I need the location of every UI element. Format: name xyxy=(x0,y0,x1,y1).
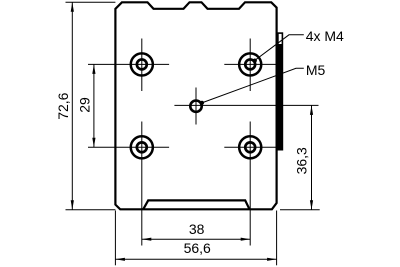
svg-text:72,6: 72,6 xyxy=(55,92,71,119)
side rail solid lower part xyxy=(277,44,283,150)
centerline col left top hole xyxy=(141,39,143,92)
hole center M5 xyxy=(190,101,201,112)
hole top-left M4 xyxy=(131,53,153,75)
center hole horizontal centerline + 36,3 extension xyxy=(174,104,318,106)
svg-text:M5: M5 xyxy=(306,62,326,78)
arrows 72,6 xyxy=(71,2,313,261)
svg-text:56,6: 56,6 xyxy=(184,240,211,256)
svg-text:38: 38 xyxy=(189,221,205,237)
bottom step xyxy=(143,200,249,209)
dimension line 72,6 xyxy=(71,2,73,209)
extension line top-left (72,6) xyxy=(66,1,116,3)
centerline row1 left (29 extension) xyxy=(88,63,169,65)
hole bottom-right M4 xyxy=(239,136,261,158)
hole bottom-left M4 xyxy=(131,136,153,158)
arrows 38 xyxy=(142,238,152,241)
extension line bottom-right (36,3) xyxy=(280,209,320,211)
side rail outline xyxy=(278,33,283,150)
centerline col left bottom hole + 38 extension xyxy=(141,122,143,246)
dimension line 36,3 xyxy=(311,105,313,209)
leader 4x M4 xyxy=(254,35,304,61)
centerline col right bottom hole + 38 extension xyxy=(249,122,251,246)
svg-text:4x M4: 4x M4 xyxy=(306,28,344,44)
plate outline xyxy=(115,2,276,209)
centerline row2 left (29 extension) xyxy=(88,146,169,148)
centerline col right top hole xyxy=(249,39,251,92)
dimension line 56,6 xyxy=(115,258,276,260)
centerline row1 right xyxy=(224,63,276,65)
hole top-right M4 xyxy=(239,53,261,75)
centerline row2 right xyxy=(224,146,276,148)
svg-text:29: 29 xyxy=(76,97,92,113)
svg-text:36,3: 36,3 xyxy=(294,147,310,174)
arrows 56,6 xyxy=(115,258,125,261)
dimension line 38 xyxy=(142,238,250,240)
extension line 56,6 left xyxy=(114,211,116,266)
dimension line 29 xyxy=(93,64,95,147)
leader M5 xyxy=(202,68,304,103)
leader dot M5 xyxy=(200,101,204,105)
arrows 29 xyxy=(92,64,95,74)
leader dot 4x M4 xyxy=(253,59,257,63)
extension line 56,6 right xyxy=(276,211,278,266)
extension line bottom-left (72,6) xyxy=(66,209,116,211)
center hole vertical centerline xyxy=(195,88,197,125)
arrows 36,3 xyxy=(310,105,313,115)
